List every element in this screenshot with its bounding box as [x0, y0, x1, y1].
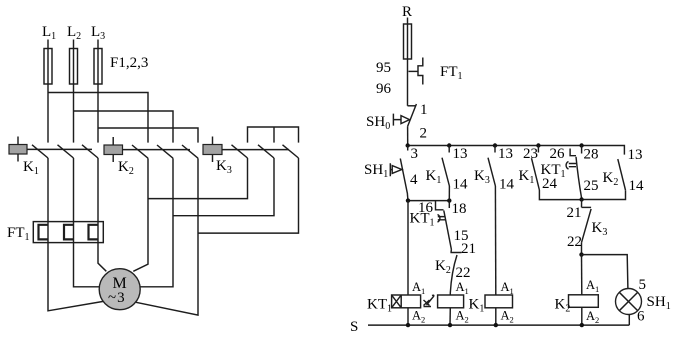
contact K1 23-24 blade — [532, 158, 540, 190]
wire SH0 to bus — [407, 126, 409, 145]
FT1 heater element pole3 — [89, 225, 99, 240]
wire tap L1 to K2 pole1 — [48, 93, 148, 143]
wire motor terminal U1 (pole1 to motor bottom-left) — [48, 243, 106, 311]
svg-text:23: 23 — [523, 146, 538, 162]
svg-text:K2: K2 — [118, 159, 134, 177]
FT1 trip flag — [418, 58, 423, 85]
FT1 trip flag dash — [409, 70, 419, 72]
svg-text:KT1: KT1 — [541, 162, 566, 180]
wire FT1 pole2 through — [73, 222, 75, 243]
wire K3 pole3 down — [198, 158, 299, 233]
contactor K1 linkage — [27, 148, 92, 150]
svg-text:A1: A1 — [586, 278, 599, 294]
contactor K3 main contact pole2 blade — [258, 145, 274, 158]
fuse F3 — [94, 49, 102, 85]
contactor K3 armature tick top — [212, 137, 214, 145]
svg-text:24: 24 — [542, 176, 558, 192]
junction bus-1 — [406, 143, 410, 147]
junction node 22 — [579, 252, 583, 256]
node 1 tick — [408, 105, 416, 107]
contactor K1 main contact pole1 blade — [32, 145, 48, 158]
wire motor terminal V1 (pole2 to motor left) — [74, 243, 100, 287]
contactor K3 main contact pole1 blade — [232, 145, 248, 158]
svg-text:F1,2,3: F1,2,3 — [110, 55, 148, 71]
contactor K2 linkage — [123, 149, 191, 151]
wire L2 vertical — [73, 40, 75, 143]
wire branch3 down to K1 coil — [494, 186, 496, 295]
svg-text:26: 26 — [550, 146, 566, 162]
coil K2 box — [569, 295, 599, 308]
wire FT1 pole3 through — [97, 222, 99, 243]
svg-text:S: S — [350, 319, 358, 335]
svg-text:95: 95 — [376, 60, 391, 76]
contact K1 13-14 blade — [442, 158, 449, 186]
KT1 changeover blade — [444, 211, 452, 250]
contactor K2 main contact pole1 blade — [132, 145, 148, 158]
lamp SH1 cross — [619, 292, 637, 310]
wire middle coil top — [449, 293, 451, 295]
svg-text:2: 2 — [420, 126, 428, 142]
wire K2 pole1 to motor upper-right — [133, 158, 148, 271]
svg-text:SH1: SH1 — [647, 294, 671, 312]
svg-text:A2: A2 — [412, 309, 425, 325]
FT1 heater element pole2 — [64, 225, 74, 240]
wire lamp to rail — [628, 314, 630, 325]
svg-text:5: 5 — [639, 277, 647, 293]
svg-text:FT1: FT1 — [7, 225, 30, 243]
coil K1 box — [485, 295, 513, 308]
pushbutton SH0 blade — [408, 104, 417, 126]
svg-text:A1: A1 — [501, 280, 514, 296]
contact K1 23-24 stub — [537, 146, 539, 153]
contact K1 13-14 stub — [448, 146, 450, 153]
wire R down — [407, 18, 409, 106]
wire node 25 down — [581, 200, 583, 208]
contactor K2 armature tick bottom — [112, 155, 114, 163]
wire K1 coil to rail — [495, 308, 497, 325]
junction rail-4 — [580, 323, 584, 327]
thermal overload FT1 box — [33, 222, 103, 243]
contactor K2 main contact pole2 blade — [157, 145, 173, 158]
wire FT1 pole1 through — [47, 222, 49, 243]
wire K1 pole2 to FT1 — [73, 158, 75, 222]
coil K3 squiggle mark — [424, 295, 434, 306]
svg-text:K3: K3 — [216, 158, 232, 176]
svg-text:1: 1 — [420, 102, 428, 118]
wire tap L2 to K2 pole2 — [74, 111, 174, 143]
junction bus-3 — [493, 143, 497, 147]
svg-text:21: 21 — [567, 205, 582, 221]
rail S — [368, 324, 629, 326]
wire K3 pole2 down — [173, 158, 274, 216]
svg-text:A2: A2 — [456, 309, 469, 325]
svg-text:SH0: SH0 — [366, 114, 390, 132]
contactor K3 armature box — [203, 145, 222, 155]
wire motor terminal W1 (pole3 to motor upper-left) — [98, 243, 106, 272]
KT1 delay symbol upper — [566, 162, 576, 170]
svg-text:KT1: KT1 — [367, 297, 392, 315]
timer coil KT1 X section — [392, 295, 402, 308]
svg-text:~3: ~3 — [108, 290, 125, 306]
contactor K1 main contact pole3 blade — [82, 145, 98, 158]
KT1 delayed terminal 26 stub — [570, 149, 576, 156]
wire K2 pole3 to motor bottom-right — [136, 158, 198, 315]
pushbutton SH1 arrowhead — [392, 166, 402, 174]
wire K1 pole3 to FT1 — [97, 158, 99, 222]
KT1 delayed contact blade — [576, 157, 582, 199]
wire contact K2 14 down and left — [582, 190, 626, 199]
terminal 3 stub — [407, 146, 409, 151]
svg-text:K1: K1 — [469, 297, 485, 315]
contact K3 NC blade — [582, 209, 592, 243]
svg-text:A2: A2 — [586, 309, 599, 325]
wire K2 coil to rail — [581, 307, 583, 325]
wire K3 star bridge bus — [248, 127, 299, 143]
terminal 18 stub — [448, 201, 450, 208]
svg-text:K1: K1 — [519, 168, 535, 186]
contactor K1 main contact pole2 blade — [58, 145, 74, 158]
fuse F2 — [70, 49, 78, 85]
svg-text:96: 96 — [376, 81, 392, 97]
svg-text:L1: L1 — [42, 24, 56, 42]
junction node 4 — [406, 198, 410, 202]
timer coil KT1 box — [392, 295, 421, 308]
junction node 18 — [447, 198, 451, 202]
svg-text:K1: K1 — [426, 168, 442, 186]
wire K3 NC to node 22 — [581, 243, 583, 255]
junction node 25 — [579, 197, 583, 201]
wire K1 pole1 to FT1 — [47, 158, 49, 222]
junction rail-1 — [406, 323, 410, 327]
svg-text:A1: A1 — [456, 280, 469, 296]
svg-text:K1: K1 — [23, 159, 39, 177]
contactor K2 armature tick top — [112, 137, 114, 145]
svg-text:14: 14 — [629, 178, 645, 194]
svg-text:K2: K2 — [603, 170, 619, 188]
junction bus-5 — [579, 143, 583, 147]
contact K3 13-14 blade — [488, 158, 495, 186]
junction rail-2 — [448, 323, 452, 327]
contactor K1 armature tick bottom — [17, 154, 19, 162]
svg-text:18: 18 — [452, 201, 467, 217]
pushbutton SH1 blade — [400, 159, 407, 195]
wire middle coil to rail — [449, 308, 451, 325]
terminal 21 tick (K2 NC) — [450, 250, 461, 253]
wire KT1 coil to rail — [407, 308, 409, 325]
svg-text:L2: L2 — [67, 24, 81, 42]
pushbutton SH1 actuator — [390, 163, 392, 176]
wire K3 pole1 down — [148, 158, 248, 199]
svg-text:14: 14 — [499, 177, 515, 193]
motor M circle — [99, 269, 140, 310]
pushbutton SH0 actuator — [393, 114, 400, 126]
wire L3 vertical — [97, 40, 99, 143]
lamp SH1 circle — [616, 289, 642, 315]
contact K2 13-14 blade — [618, 159, 626, 190]
KT1 changeover terminal 16 stub — [436, 201, 444, 210]
contactor K3 linkage — [222, 149, 289, 151]
KT1 delay symbol lower — [438, 215, 446, 223]
coil K3 box (middle) — [438, 295, 464, 308]
svg-text:22: 22 — [456, 265, 471, 281]
control bus — [408, 146, 625, 155]
wire K3 star bridge middle drop — [273, 127, 275, 143]
contact K3 13-14 stub — [494, 146, 496, 153]
fuse FU control — [404, 24, 412, 59]
contact K2 NC blade — [450, 255, 457, 293]
junction bus-4 — [536, 143, 540, 147]
svg-text:25: 25 — [584, 178, 599, 194]
svg-text:A2: A2 — [501, 309, 514, 325]
wire branch1 down to KT1 coil — [407, 201, 409, 295]
svg-text:A1: A1 — [412, 280, 425, 296]
svg-text:13: 13 — [453, 146, 468, 162]
wire tap L3 to K2 pole3 — [98, 128, 198, 143]
svg-text:13: 13 — [628, 147, 643, 163]
junction bus-2 — [447, 143, 451, 147]
pushbutton SH0 arrowhead — [401, 116, 410, 124]
wire L1 vertical — [47, 40, 49, 143]
svg-text:6: 6 — [637, 309, 645, 325]
FT1 heater element pole1 — [39, 225, 49, 240]
svg-text:14: 14 — [453, 177, 469, 193]
contactor K2 armature box — [104, 145, 123, 155]
junction rail-3 — [494, 323, 498, 327]
svg-text:FT1: FT1 — [440, 64, 463, 82]
svg-text:13: 13 — [498, 146, 513, 162]
fuse F1 — [44, 49, 52, 85]
wire contact 24 down and right — [539, 190, 581, 200]
svg-text:K2: K2 — [435, 258, 451, 276]
contactor K3 armature tick bottom — [212, 155, 214, 163]
wire K2 pole2 to motor right — [140, 158, 173, 287]
terminal 21 tick (K3 NC) — [582, 206, 592, 208]
svg-text:K3: K3 — [474, 168, 490, 186]
svg-text:L3: L3 — [91, 24, 105, 42]
contactor K1 armature tick top — [17, 137, 19, 145]
svg-text:K3: K3 — [592, 220, 608, 238]
wire node link 4-14 — [408, 200, 449, 202]
wire node 22 to lamp — [582, 255, 628, 289]
wire SH1 to node 4 — [406, 194, 409, 201]
svg-text:SH1: SH1 — [364, 162, 388, 180]
wire node 22 to K2 coil — [581, 255, 583, 295]
contactor K3 main contact pole3 blade — [283, 145, 299, 158]
contactor K1 armature box — [9, 145, 27, 155]
wire contact K1 14 down — [448, 186, 450, 201]
svg-text:22: 22 — [567, 234, 582, 250]
svg-text:28: 28 — [584, 147, 599, 163]
svg-text:4: 4 — [410, 172, 418, 188]
svg-text:21: 21 — [461, 241, 476, 257]
contactor K2 main contact pole3 blade — [182, 145, 198, 158]
svg-text:3: 3 — [411, 146, 419, 162]
terminal 28 stub — [581, 146, 583, 154]
